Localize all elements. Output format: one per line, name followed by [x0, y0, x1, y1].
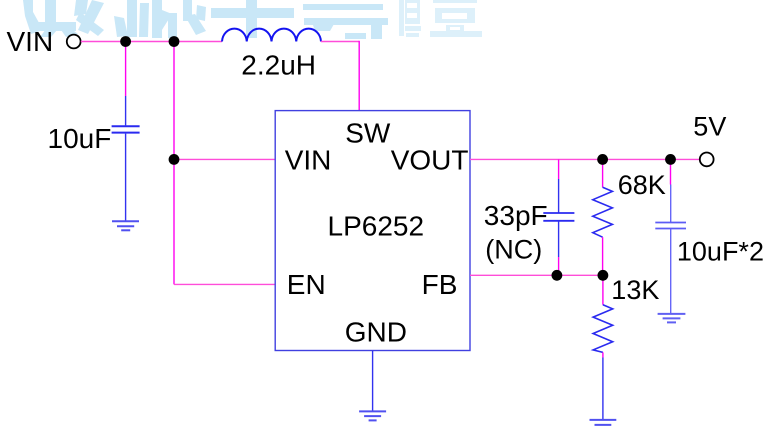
capacitor C1 plates 10uF [112, 126, 140, 132]
svg-text:EN: EN [287, 269, 326, 300]
capacitor C1 top lead [125, 96, 127, 125]
svg-text:10uF*2: 10uF*2 [677, 237, 764, 267]
svg-text:GND: GND [345, 316, 407, 347]
svg-text:5V: 5V [693, 112, 726, 142]
junction dot E [665, 154, 676, 165]
svg-text:2.2uH: 2.2uH [241, 50, 316, 81]
capacitor C3 plates 10uF*2 [655, 223, 686, 229]
op-amp U1 LP6252 body [275, 111, 470, 351]
ground under U1 [359, 411, 386, 420]
wire SW vertical [358, 41, 360, 111]
watermark character 3 (cross shape) [211, 0, 294, 38]
wire input cap branch (magenta) [125, 42, 127, 97]
svg-text:(NC): (NC) [485, 234, 542, 264]
wire inductor to SW corner [321, 41, 359, 43]
wire 68K upper lead [602, 159, 604, 187]
wire VOUT row [470, 158, 700, 160]
ground under C1 [112, 221, 139, 230]
capacitor C1 bottom lead [125, 134, 127, 221]
svg-text:33pF: 33pF [484, 200, 548, 231]
watermark character 1 (bottom of CJK glyph) [23, 0, 104, 37]
ground under C3 [658, 314, 686, 323]
junction dot A [120, 36, 131, 47]
wire VIN terminal to inductor [81, 41, 222, 43]
svg-text:68K: 68K [618, 170, 666, 200]
resistor R2 13K [593, 305, 613, 353]
ground under R2 [590, 420, 617, 425]
junction dot G [598, 270, 609, 281]
capacitor C2 plates 33pF [543, 213, 574, 221]
capacitor C3 top lead [670, 185, 672, 223]
wire 13K upper lead [602, 275, 604, 305]
resistor R1 68K [593, 187, 613, 237]
wire 13K lower lead blue [602, 358, 604, 420]
wire 33pF branch upper (magenta) [558, 159, 560, 179]
svg-text:VIN: VIN [7, 26, 54, 57]
svg-text:SW: SW [345, 117, 391, 148]
capacitor C2 top lead [558, 179, 560, 213]
wire 10uF*2 branch upper (magenta) [670, 159, 672, 184]
wire GND pin [372, 351, 374, 411]
watermark character 5 (boxed glyph, lighter) [399, 0, 482, 37]
wire to EN pin [174, 283, 275, 285]
inductor L1 [222, 29, 321, 42]
wire FB row [470, 274, 603, 276]
svg-text:VIN: VIN [285, 144, 332, 175]
svg-text:13K: 13K [611, 275, 659, 305]
wire to VIN pin [174, 158, 275, 160]
capacitor C3 bottom lead [670, 229, 672, 313]
watermark character 2 [114, 0, 206, 38]
wire 13K lower lead magenta stub [602, 352, 604, 357]
svg-text:FB: FB [422, 269, 458, 300]
terminal VIN [67, 35, 81, 49]
svg-text:10uF: 10uF [48, 123, 112, 154]
watermark character 4 (horizontal bars) [303, 4, 388, 39]
svg-text:VOUT: VOUT [391, 144, 469, 175]
wire 33pF branch lower (magenta) [558, 257, 560, 275]
terminal 5V [700, 153, 714, 167]
junction dot F [552, 270, 563, 281]
junction dot B [169, 36, 180, 47]
junction dot C [169, 154, 180, 165]
wire 68K lower lead [602, 237, 604, 275]
wire VIN/EN branch vertical [173, 42, 175, 160]
svg-text:LP6252: LP6252 [328, 211, 425, 242]
capacitor C2 bottom lead [558, 221, 560, 257]
wire EN branch vertical [173, 159, 175, 284]
junction dot D [597, 154, 608, 165]
